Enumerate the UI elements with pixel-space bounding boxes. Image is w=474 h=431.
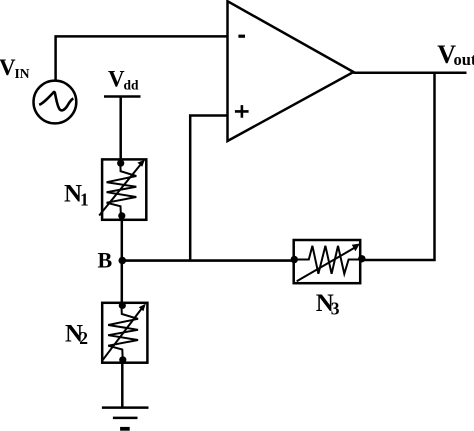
memristor N1 box bbox=[102, 159, 146, 219]
source V_IN waveform bbox=[39, 92, 73, 110]
wire: plus input from op-amp down to feedback node bbox=[190, 116, 227, 261]
wire: node B to N3 left terminal bbox=[122, 259, 294, 262]
op-amp U1 bbox=[228, 1, 354, 141]
node B dot bbox=[119, 257, 127, 265]
N2 zigzag element bbox=[108, 306, 138, 359]
N2 bottom terminal dot bbox=[119, 356, 126, 363]
V_dd supply bar bbox=[104, 95, 141, 98]
N3 zigzag element bbox=[294, 246, 362, 274]
N1 arrow bbox=[99, 160, 145, 216]
svg-text:3: 3 bbox=[331, 298, 340, 318]
wire: op-amp output to V_out corner bbox=[354, 72, 467, 75]
N1 zigzag element bbox=[107, 163, 137, 216]
svg-text:B: B bbox=[98, 247, 113, 272]
N2 top terminal dot bbox=[119, 302, 126, 309]
wire: N2 bottom to ground bbox=[121, 360, 124, 408]
source V_IN circle bbox=[34, 81, 77, 124]
svg-text:V: V bbox=[108, 67, 125, 92]
svg-text:dd: dd bbox=[124, 77, 140, 92]
wire: N1 bottom through node B to N2 top bbox=[121, 216, 124, 306]
N1 bottom terminal dot bbox=[118, 212, 125, 219]
memristor N3 box bbox=[294, 240, 361, 283]
wire: V_IN source top to op-amp minus input bbox=[56, 36, 228, 80]
svg-text:1: 1 bbox=[80, 190, 89, 210]
wire: V_out down to N3 right terminal bbox=[362, 73, 435, 260]
svg-text:out: out bbox=[454, 50, 474, 69]
N1 top terminal dot bbox=[117, 160, 124, 167]
ground bbox=[102, 408, 149, 429]
op-amp minus sign bbox=[238, 35, 245, 38]
N3 left terminal dot bbox=[291, 256, 298, 263]
wire: V_dd to N1 bbox=[119, 97, 122, 164]
svg-text:IN: IN bbox=[15, 66, 30, 81]
svg-text:2: 2 bbox=[79, 328, 88, 348]
N3 right terminal dot bbox=[358, 255, 365, 262]
memristor N2 box bbox=[102, 303, 147, 363]
N3 arrow bbox=[297, 244, 360, 282]
op-amp plus sign bbox=[235, 105, 249, 118]
N2 arrow bbox=[103, 304, 146, 361]
